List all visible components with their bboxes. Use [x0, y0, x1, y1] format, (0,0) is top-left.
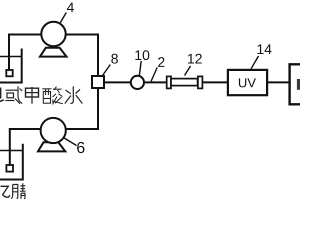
leader line label 4 [60, 13, 66, 23]
column 12 left end cap [167, 76, 171, 88]
beaker (bottom, acetonitrile) [0, 144, 23, 180]
UV detector label text [239, 78, 246, 87]
leader line label 14 [251, 56, 259, 69]
label 12 [188, 54, 194, 64]
pump 4 circle [41, 22, 65, 46]
beaker (top, water/formic acid water) [0, 49, 22, 83]
partial glyph inside MS box [297, 79, 300, 90]
label 8 [111, 54, 118, 64]
pump 6 base trapezoid [38, 142, 65, 151]
leader line label 8 [102, 65, 111, 78]
label suan (酸) [42, 87, 63, 104]
mixer tee 8 [92, 76, 104, 88]
MS detector box (cut off at right edge) [290, 64, 300, 104]
leader line label 10 [139, 61, 141, 76]
column 12 right end cap [198, 76, 203, 88]
inlet filter sinker (top beaker) [6, 70, 12, 76]
wire UV detector 14 to MS box [267, 81, 289, 83]
label huo (或) [5, 86, 22, 103]
label yi (乙) [1, 186, 10, 197]
inlet filter sinker (bottom beaker) [6, 165, 13, 172]
pump 4 base trapezoid [40, 48, 67, 57]
label jia (甲) [26, 87, 39, 104]
wire 2 injector 10 to column 12 [144, 81, 167, 83]
label jing (腈) [11, 183, 25, 198]
leader line label 6 [63, 138, 76, 146]
label 2 [158, 57, 164, 67]
leader line label 2 [151, 68, 157, 82]
label shui (partial, cut at left edge) [0, 88, 4, 102]
label shui (水) [65, 86, 83, 103]
leader line label 12 [185, 66, 191, 76]
injector 10 [131, 76, 144, 89]
wire from solvent bottle 2 to pump 6 [10, 129, 42, 165]
wire mixer 8 to injector 10 [104, 81, 131, 83]
wire from pump 4 to mixer 8 [64, 35, 98, 78]
UV detector 14 box [228, 70, 267, 95]
wire from mixer 8 down to pump 6 [66, 87, 99, 129]
label 6 [77, 142, 84, 153]
pump 6 circle [41, 118, 66, 143]
wire from solvent bottle 1 to pump 4 [9, 35, 41, 71]
label 10 [135, 50, 141, 60]
label 4 [67, 3, 74, 13]
liquid level line (top beaker) [0, 56, 22, 58]
label 14 [257, 44, 263, 54]
wire column 12 to UV detector 14 [202, 81, 227, 83]
column 12 body [171, 79, 198, 86]
liquid level line (bottom beaker) [0, 150, 23, 152]
